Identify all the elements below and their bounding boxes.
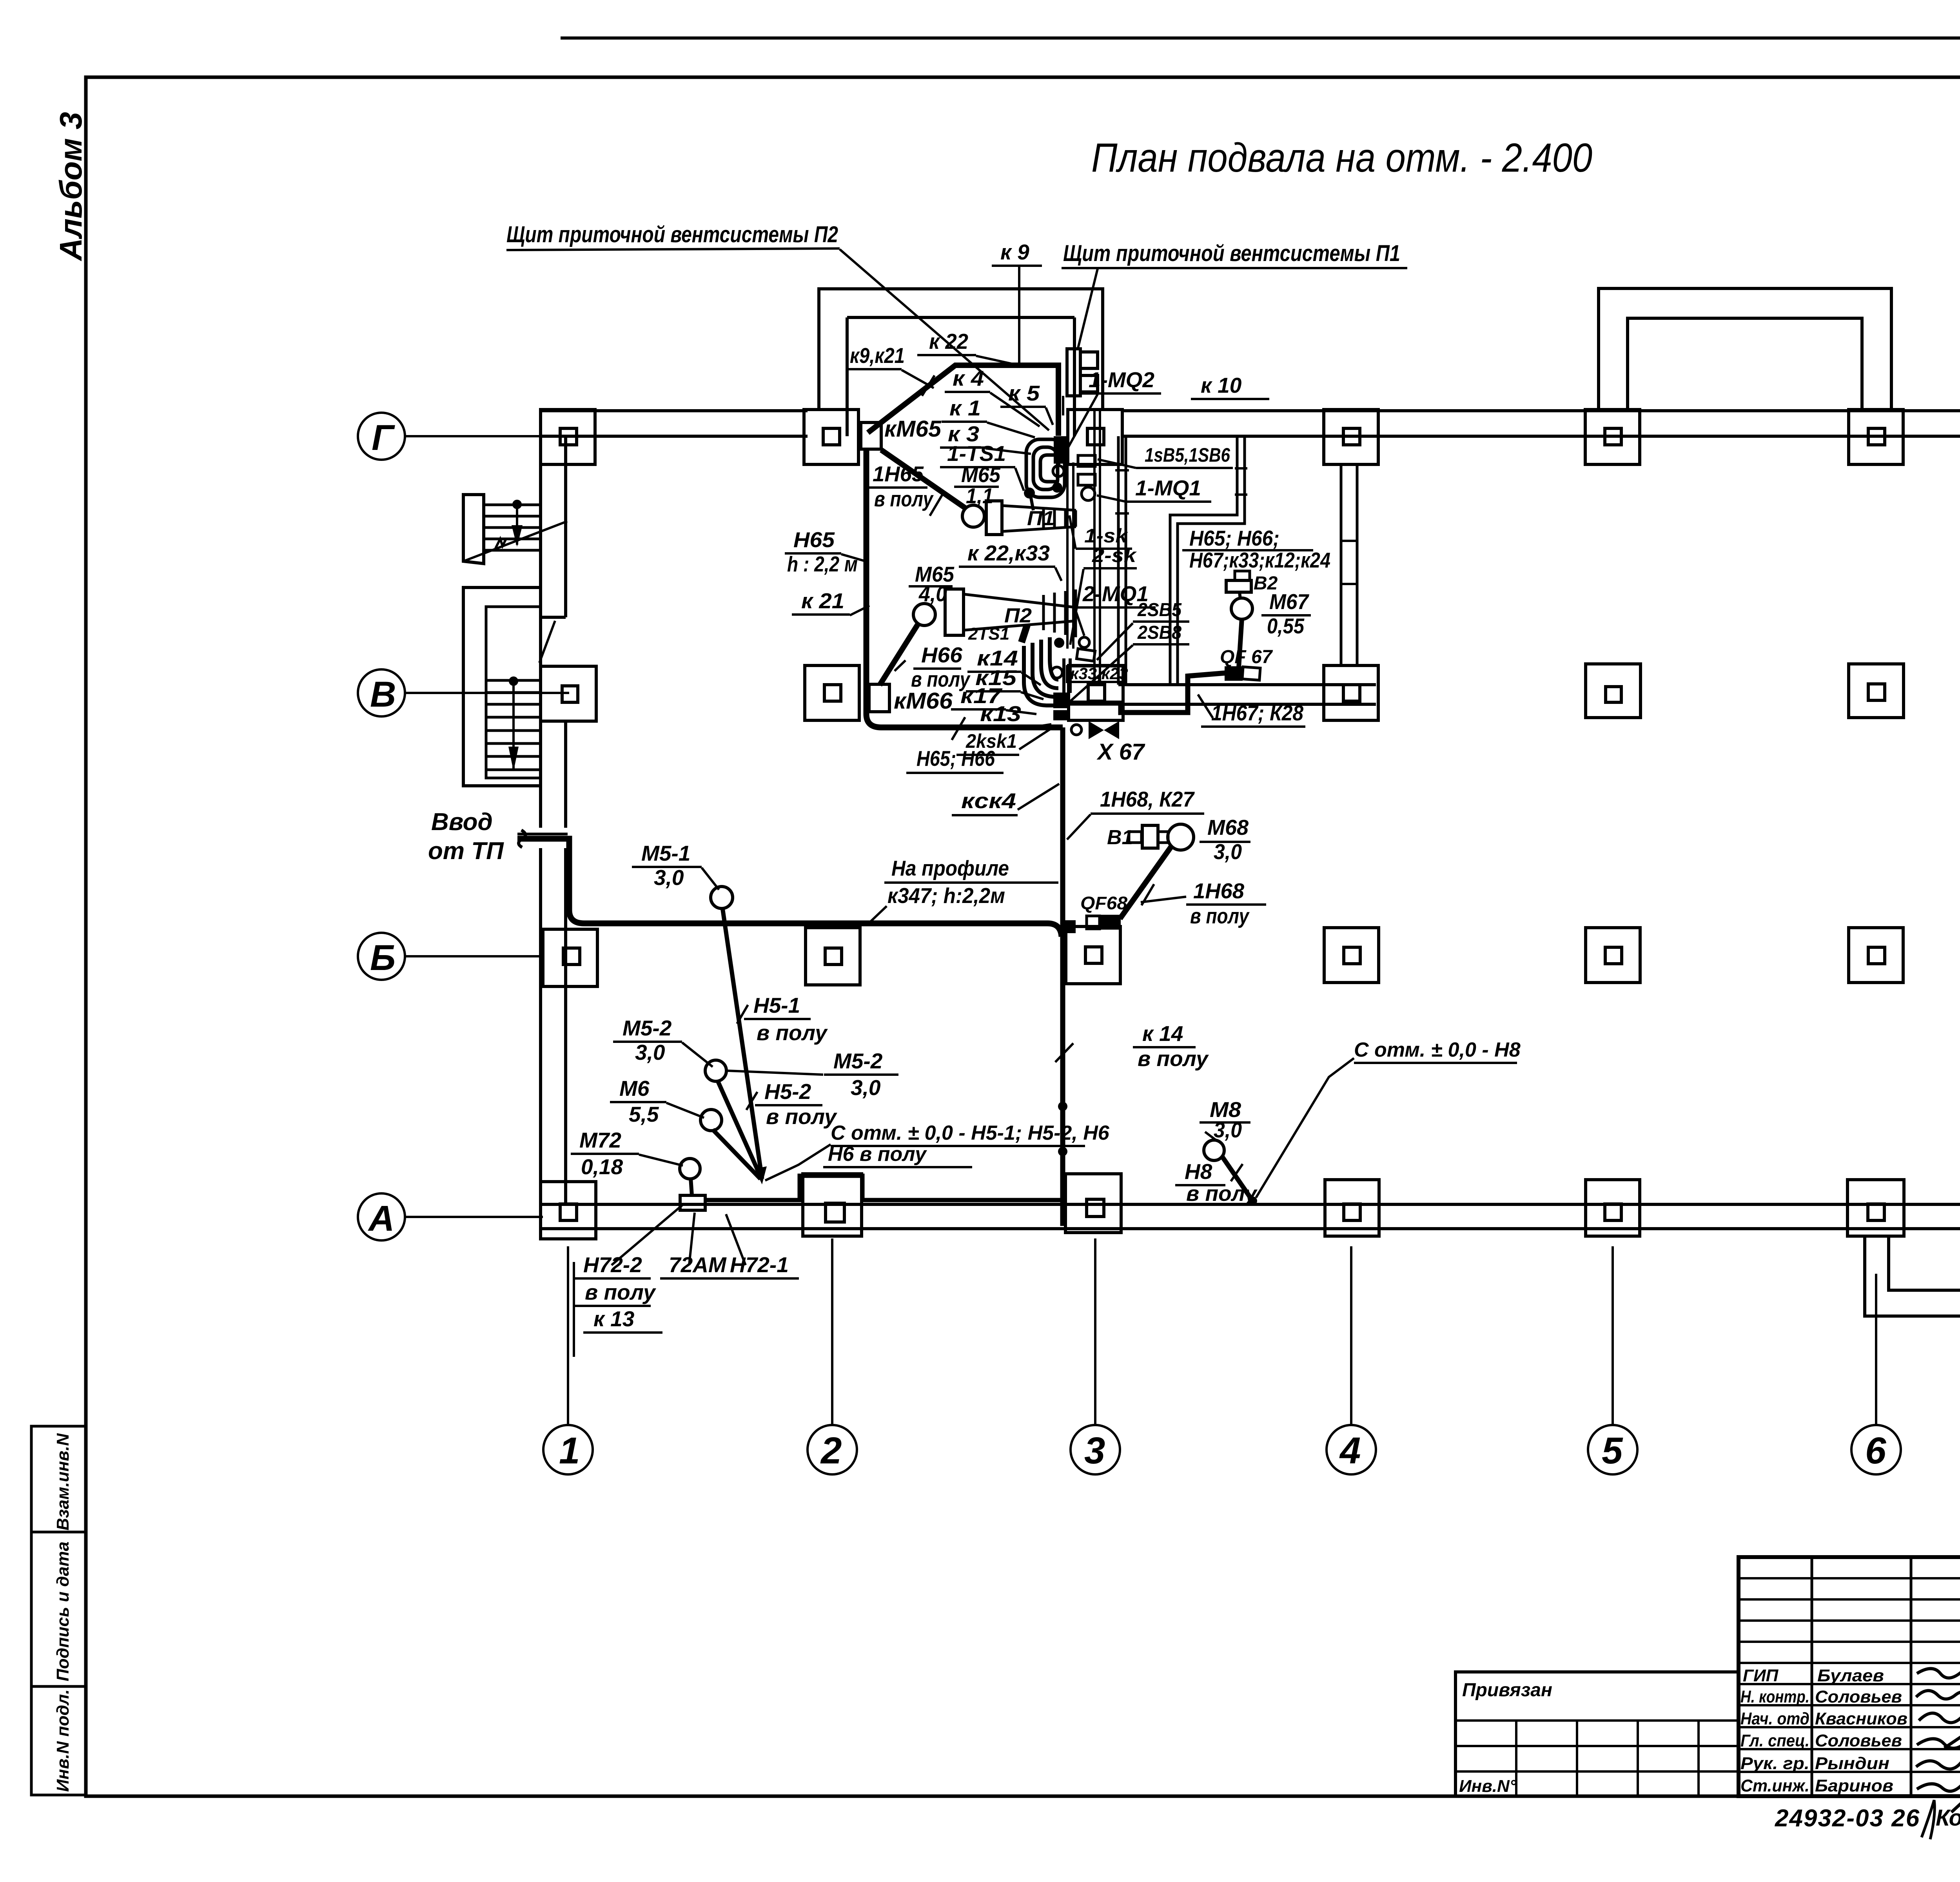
svg-text:к 1: к 1: [949, 396, 981, 420]
svg-text:С отм. ± 0,0 - Н5-1; Н5-2, Н6: С отм. ± 0,0 - Н5-1; Н5-2, Н6: [831, 1122, 1110, 1144]
TITLE BLOCK: [1455, 1557, 1960, 1839]
box Подпись и дата: [31, 1532, 86, 1686]
svg-text:Инв.N°: Инв.N°: [1459, 1777, 1517, 1796]
72АМ box: [680, 1195, 705, 1210]
svg-text:QF68: QF68: [1080, 893, 1127, 913]
svg-text:1Н68, К27: 1Н68, К27: [1100, 787, 1195, 811]
svg-text:Рындин: Рындин: [1815, 1754, 1889, 1773]
svg-text:к 4: к 4: [953, 366, 984, 390]
svg-text:М65: М65: [961, 462, 1001, 487]
svg-text:Булаев: Булаев: [1817, 1666, 1884, 1685]
svg-text:к33,к23: к33,к23: [1070, 664, 1128, 683]
column Г1: [541, 410, 595, 464]
column Б1: [543, 929, 597, 986]
svg-text:6: 6: [1865, 1430, 1886, 1472]
svg-text:к13: к13: [980, 702, 1021, 726]
floor run Н6 along wall: [706, 1176, 1060, 1200]
left margin boxes: [31, 1426, 86, 1795]
stair1 dot: [512, 500, 522, 509]
column Б3: [1066, 926, 1120, 984]
role / name texts: [1740, 1666, 1907, 1795]
svg-text:Н. контр.: Н. контр.: [1740, 1687, 1809, 1706]
sheet outer edge top line: [561, 36, 1960, 40]
svg-text:Н5-1: Н5-1: [753, 993, 800, 1017]
svg-text:4,0: 4,0: [918, 582, 947, 606]
thin sensor lines down the middle: [1057, 396, 1060, 415]
svg-text:кск4: кск4: [961, 789, 1016, 813]
svg-text:М5-2: М5-2: [622, 1016, 672, 1040]
cables convergence bottom-left М5-1: [722, 908, 762, 1179]
svg-text:Квасников: Квасников: [1815, 1709, 1907, 1728]
partition A ticks: [1115, 469, 1129, 471]
svg-text:План подвала на отм. - 2.40: План подвала на отм. - 2.400: [1091, 135, 1592, 181]
convergence arrowhead: [755, 1166, 767, 1184]
svg-text:1Н67; К28: 1Н67; К28: [1211, 701, 1303, 725]
svg-text:В1: В1: [1107, 826, 1133, 849]
column Г2: [804, 410, 858, 464]
svg-text:1-sk: 1-sk: [1084, 525, 1128, 547]
bubble 3: [1071, 1425, 1120, 1474]
leader С отм Н8: [1256, 1058, 1354, 1198]
svg-text:24932-03 26: 24932-03 26: [1775, 1805, 1920, 1832]
bubble 2: [808, 1425, 857, 1474]
svg-text:Н8: Н8: [1185, 1159, 1212, 1184]
svg-text:Б: Б: [370, 938, 396, 978]
column А3: [1065, 1174, 1121, 1233]
bubble Б: [358, 933, 405, 980]
svg-text:1: 1: [559, 1430, 580, 1472]
svg-text:Н65; Н66;: Н65; Н66;: [1189, 526, 1279, 550]
trunk кск4 / К14: [1060, 727, 1065, 1226]
column Б4: [1324, 928, 1379, 983]
svg-text:2SB5: 2SB5: [1137, 600, 1182, 620]
svg-text:в полу: в полу: [585, 1280, 656, 1304]
svg-text:1Н68: 1Н68: [1193, 879, 1244, 903]
row В interior wall (vent chamber bottom): [1118, 683, 1376, 686]
svg-text:3,0: 3,0: [1214, 1118, 1242, 1142]
bottom wall row А: [541, 1203, 1960, 1206]
svg-text:Копировал: Копировал: [1936, 1805, 1960, 1831]
svg-text:М5-2: М5-2: [833, 1049, 883, 1073]
svg-text:Соловьев: Соловьев: [1815, 1687, 1902, 1706]
wall gap at ввод: [538, 828, 569, 848]
bubble 5: [1588, 1425, 1637, 1474]
svg-text:к 22: к 22: [929, 329, 968, 354]
В1 symbol + М68 motor: [1129, 832, 1142, 843]
GRID BUBBLES: [358, 413, 1960, 1474]
svg-text:М6: М6: [619, 1076, 650, 1101]
Album label: [53, 112, 88, 261]
bubble Г: [358, 413, 405, 460]
COLUMNS: [541, 407, 1960, 1239]
box Инв.N подл.: [31, 1686, 86, 1795]
wall row Г top: [541, 409, 808, 412]
svg-text:1Н65: 1Н65: [873, 462, 924, 486]
svg-text:Н67;к33;к12;к24: Н67;к33;к12;к24: [1189, 548, 1330, 572]
column В3: [1069, 665, 1123, 720]
svg-text:Инв.N подл.: Инв.N подл.: [53, 1689, 73, 1792]
svg-text:0,55: 0,55: [1267, 614, 1305, 638]
bubble 4: [1327, 1425, 1376, 1474]
column А5: [1586, 1180, 1640, 1236]
svg-text:Баринов: Баринов: [1815, 1776, 1893, 1795]
signature table rows upper: [1739, 1577, 1960, 1579]
М72: [680, 1159, 700, 1179]
П1 small circle MQ2: [1053, 466, 1064, 477]
1-МВ1 circle: [1082, 487, 1095, 500]
left stair 1 (upper): [463, 495, 567, 564]
svg-text:1-МQ2: 1-МQ2: [1089, 368, 1154, 392]
svg-text:На профиле: На профиле: [891, 856, 1009, 880]
B2 symbol: [1235, 571, 1250, 580]
svg-text:Взам.инв.N: Взам.инв.N: [53, 1433, 73, 1530]
column В6: [1849, 664, 1904, 718]
signature table rows lower: [1739, 1683, 1960, 1685]
М67 motor: [1231, 598, 1252, 619]
Ввод arrow squiggle: [519, 830, 526, 847]
column А2: [803, 1174, 862, 1236]
interior partition A (right of cluster): [1117, 436, 1120, 685]
svg-text:X 67: X 67: [1096, 739, 1145, 765]
WALLS: [541, 288, 1960, 1322]
cable QF68 to М68: [1120, 845, 1172, 919]
svg-text:Гл. спец.: Гл. спец.: [1740, 1731, 1809, 1750]
column Б2: [806, 928, 860, 985]
svg-text:Н6 в полу: Н6 в полу: [828, 1143, 927, 1166]
Ввод от ТП entry cable: [517, 839, 1062, 937]
left stair 2 enclosure: [463, 587, 555, 786]
svg-text:0,18: 0,18: [581, 1155, 623, 1179]
svg-text:ГИП: ГИП: [1743, 1666, 1779, 1685]
svg-text:Ст.инж.: Ст.инж.: [1740, 1776, 1809, 1795]
svg-text:5: 5: [1602, 1430, 1623, 1472]
QF68 box: [1087, 916, 1100, 929]
column Б6: [1849, 928, 1903, 983]
svg-text:Рук. гр.: Рук. гр.: [1740, 1754, 1809, 1773]
column Б5: [1586, 928, 1640, 983]
column Г6: [1849, 410, 1903, 464]
П1 coil bundle nested arcs: [1026, 439, 1065, 497]
bubble 6: [1851, 1425, 1901, 1474]
svg-text:М72: М72: [579, 1128, 621, 1152]
svg-text:к347; h:2,2м: к347; h:2,2м: [887, 883, 1005, 908]
junction dots on trunk: [1058, 1102, 1067, 1111]
svg-text:1-ТS1: 1-ТS1: [947, 441, 1006, 466]
П2 unit motor М66: [913, 604, 935, 626]
svg-text:Альбом 3: Альбом 3: [53, 112, 88, 261]
protrusion 1 above Г (vent shaft): [819, 289, 1103, 411]
svg-text:Н65: Н65: [793, 528, 835, 552]
column В5: [1586, 664, 1641, 718]
column А6: [1847, 1180, 1904, 1236]
partition B ticks: [1235, 467, 1247, 470]
QF67: [1225, 666, 1243, 681]
svg-text:Нач. отд: Нач. отд: [1740, 1709, 1809, 1728]
svg-text:П1: П1: [1027, 507, 1054, 530]
column А4: [1325, 1180, 1379, 1236]
svg-text:к 21: к 21: [801, 589, 844, 613]
П1 junction black block: [1054, 436, 1067, 464]
svg-text:1sB5,1SB6: 1sB5,1SB6: [1145, 444, 1230, 466]
bottom right protrusion walls: [1865, 1229, 1960, 1316]
svg-text:3,0: 3,0: [1214, 839, 1242, 864]
П1 fan unit motor М65: [962, 505, 984, 527]
bubble А: [358, 1193, 405, 1240]
svg-text:П2: П2: [1004, 604, 1032, 627]
svg-text:В: В: [370, 674, 396, 714]
X67 bowtie: [1071, 725, 1082, 735]
cable К9,К21 diagonal to panel: [868, 365, 1058, 436]
svg-text:в полу: в полу: [874, 487, 934, 511]
cable К21/Н65 vertical + Н65;Н66 run: [866, 449, 1063, 727]
column В1: [541, 666, 596, 721]
cable М66-КМ66 diagonal: [880, 624, 918, 685]
svg-text:1-МQ1: 1-МQ1: [1135, 476, 1201, 500]
svg-text:5,5: 5,5: [629, 1102, 659, 1126]
cable 1Н65 diagonal КМ65 to М65 fan: [881, 450, 966, 509]
svg-text:Подпись и дата: Подпись и дата: [53, 1541, 73, 1681]
svg-text:А: А: [368, 1198, 394, 1238]
svg-text:4: 4: [1339, 1430, 1361, 1472]
svg-text:к 14: к 14: [1142, 1021, 1183, 1046]
М72 to 72АМ: [691, 1178, 692, 1195]
svg-text:кМ66: кМ66: [894, 688, 953, 714]
column Г3: [1068, 410, 1122, 464]
М6: [713, 1130, 760, 1179]
column В2: [805, 665, 859, 720]
svg-text:кМ65: кМ65: [884, 416, 942, 442]
CABLES: [517, 365, 1354, 1226]
svg-text:в полу: в полу: [1190, 904, 1250, 928]
svg-text:в полу: в полу: [766, 1104, 837, 1129]
column А1: [541, 1182, 596, 1239]
leader С отм Н5: [765, 1144, 831, 1180]
cable М8 down: [1222, 1156, 1252, 1200]
М5-2: [705, 1060, 726, 1081]
dot 1-ТS1: [1024, 488, 1035, 499]
svg-text:3,0: 3,0: [851, 1075, 881, 1100]
svg-text:Н65; Н66: Н65; Н66: [916, 746, 995, 771]
svg-text:к9,к21: к9,к21: [850, 343, 905, 368]
svg-text:М68: М68: [1207, 815, 1249, 839]
interior partition B jogged: [1170, 436, 1237, 685]
svg-text:3,0: 3,0: [654, 865, 684, 890]
stair1 mark 1к: [495, 538, 506, 548]
svg-text:1,1: 1,1: [966, 484, 993, 508]
svg-text:М67: М67: [1269, 589, 1309, 614]
svg-text:Н72-1: Н72-1: [730, 1253, 789, 1277]
svg-text:72АМ: 72АМ: [669, 1253, 727, 1277]
black tap on trunk at QF68: [1062, 920, 1076, 933]
svg-text:в полу: в полу: [757, 1021, 828, 1045]
left wall door end cap: [541, 616, 566, 619]
svg-text:2: 2: [820, 1430, 842, 1472]
signatures squiggles: [1916, 1669, 1960, 1813]
М5-1: [711, 887, 733, 908]
svg-text:Соловьев: Соловьев: [1815, 1731, 1902, 1750]
svg-text:Щит приточной вентсистемы П1: Щит приточной вентсистемы П1: [1063, 241, 1400, 266]
svg-text:от ТП: от ТП: [428, 838, 504, 865]
П2 junction black blocks: [1053, 693, 1067, 708]
svg-text:2-sk: 2-sk: [1092, 544, 1137, 566]
П2 small circles: [1075, 608, 1084, 636]
svg-text:к 22,к33: к 22,к33: [967, 541, 1050, 565]
svg-text:Н5-2: Н5-2: [764, 1079, 811, 1104]
svg-text:Г: Г: [372, 418, 395, 458]
column Г5: [1585, 410, 1640, 464]
М68... М8 motors bottom: [1204, 1140, 1224, 1160]
left wall: [539, 411, 542, 1229]
П2 coil bundle nested arcs: [1024, 646, 1058, 705]
cable QF67 to М67: [1239, 618, 1242, 667]
signature table verticals: [1811, 1557, 1813, 1796]
П2 black tick: [1018, 624, 1030, 643]
label к33,к23 boxed: [1067, 666, 1125, 682]
starter КМ65: [861, 422, 881, 449]
svg-text:Щит приточной вентсистемы П2: Щит приточной вентсистемы П2: [506, 222, 838, 247]
DEVICES: [680, 349, 1260, 1210]
svg-text:QF 67: QF 67: [1220, 647, 1273, 667]
svg-text:2SB8: 2SB8: [1137, 622, 1181, 643]
svg-text:С отм. ± 0,0 - Н8: С отм. ± 0,0 - Н8: [1354, 1039, 1521, 1061]
bubble 1: [543, 1425, 593, 1474]
М6: [701, 1110, 722, 1131]
svg-text:в полу: в полу: [1138, 1046, 1209, 1071]
dot on П1 bundle: [1052, 482, 1062, 493]
starter КМ66: [869, 684, 889, 712]
svg-text:2ТS1: 2ТS1: [968, 624, 1009, 644]
column В4: [1324, 665, 1378, 720]
grid4 partition Г-В with ticks: [1340, 464, 1343, 664]
STAIRS: [463, 427, 1960, 786]
svg-text:к 10: к 10: [1201, 373, 1242, 397]
М5-2: [717, 1080, 761, 1178]
svg-text:к 9: к 9: [1000, 240, 1029, 264]
svg-text:к 13: к 13: [593, 1307, 634, 1331]
protrusion 2 above Г: [1599, 288, 1891, 411]
column Г4: [1324, 410, 1378, 464]
2SB tab: [1076, 649, 1095, 661]
svg-text:М5-1: М5-1: [641, 841, 690, 865]
svg-text:к 5: к 5: [1008, 381, 1040, 405]
panel П1 (Щит приточной вентсистемы П1): [1067, 349, 1080, 396]
stair1 arrow: [512, 525, 523, 547]
svg-text:в полу: в полу: [1186, 1181, 1258, 1206]
svg-text:3: 3: [1084, 1430, 1105, 1472]
bubble В: [358, 669, 405, 716]
svg-text:Н66: Н66: [921, 643, 962, 667]
svg-text:Привязан: Привязан: [1462, 1680, 1552, 1701]
svg-text:3,0: 3,0: [635, 1040, 665, 1064]
cable В row 1Н67 К28: [1064, 673, 1226, 713]
svg-text:Ввод: Ввод: [431, 809, 493, 836]
привязан box: [1455, 1672, 1739, 1796]
box Взам.инв.N: [31, 1426, 86, 1532]
